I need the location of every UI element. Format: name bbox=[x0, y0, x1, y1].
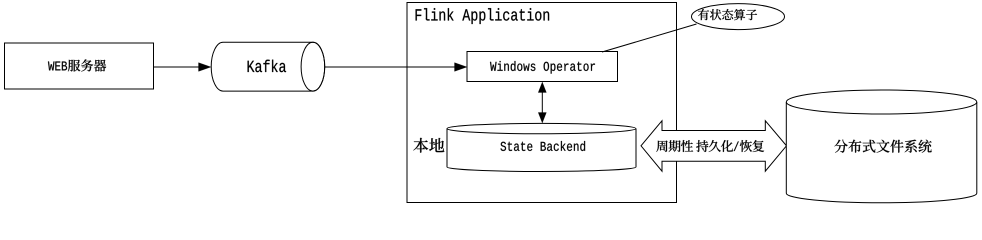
text 有状态算子 bbox=[698, 9, 757, 20]
text WEB服务器 bbox=[48, 59, 106, 71]
box Flink Application bbox=[407, 3, 677, 203]
cylinder State Backend bbox=[447, 123, 636, 171]
text 本地 bbox=[413, 138, 444, 153]
arrow Kafka to Windows Operator bbox=[325, 63, 467, 72]
box WEB服务器 bbox=[5, 43, 154, 89]
cylinder Kafka bbox=[211, 42, 324, 91]
cylinder 分布式文件系统 bbox=[786, 90, 977, 203]
text State Backend bbox=[500, 141, 585, 151]
text 分布式文件系统 bbox=[834, 140, 931, 153]
callout line bbox=[602, 24, 697, 52]
text 周期性 持久化/恢复 bbox=[656, 140, 764, 152]
callout ellipse 有状态算子 bbox=[692, 4, 785, 30]
text Windows Operator bbox=[490, 61, 595, 74]
arrow WEB服务器 to Kafka bbox=[154, 63, 212, 72]
block arrow 周期性持久化/恢复 bbox=[641, 121, 787, 172]
text Flink Application bbox=[416, 8, 550, 24]
text Kafka bbox=[248, 60, 286, 72]
box Windows Operator bbox=[467, 52, 618, 82]
double arrow Windows Operator to State Backend bbox=[538, 82, 546, 123]
